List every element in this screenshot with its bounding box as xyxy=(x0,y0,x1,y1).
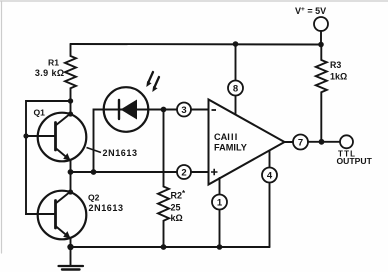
op-amp plus sign xyxy=(211,169,218,175)
light arrow 1 xyxy=(146,72,153,87)
node A junction dot xyxy=(68,169,74,175)
svg-text:Q2: Q2 xyxy=(88,193,100,203)
border frame top xyxy=(0,0,388,2)
light arrow 2 xyxy=(152,77,159,92)
node dot photodiode riser xyxy=(91,169,97,175)
resistor R1 xyxy=(65,44,76,101)
svg-text:8: 8 xyxy=(233,84,238,95)
photodiode D1 xyxy=(104,87,149,132)
svg-text:kΩ: kΩ xyxy=(171,213,183,223)
wire top rail V+ xyxy=(71,43,322,46)
wire Q2 collector up xyxy=(70,172,72,192)
node dot R2 bottom xyxy=(161,244,167,250)
svg-text:Q1: Q1 xyxy=(34,108,46,118)
pin 4 wire xyxy=(269,151,271,247)
TTL output terminal xyxy=(340,135,353,148)
border frame left xyxy=(1,1,3,253)
svg-text:1kΩ: 1kΩ xyxy=(330,72,347,82)
svg-text:4: 4 xyxy=(267,171,273,182)
wire R2 riser xyxy=(163,110,165,187)
svg-text:3.9 kΩ: 3.9 kΩ xyxy=(35,68,65,78)
ground junction dot xyxy=(67,244,73,250)
svg-text:7: 7 xyxy=(298,138,303,149)
pin 7 circle xyxy=(293,135,308,150)
output wire apex to 7 xyxy=(285,141,294,143)
wire Q2 emitter down xyxy=(70,239,72,248)
resistor R2 xyxy=(158,187,169,248)
terminal 3 xyxy=(177,103,191,117)
resistor R3 xyxy=(316,45,327,142)
node dot Q1 base xyxy=(23,133,28,138)
V+ terminal xyxy=(314,17,328,31)
svg-text:2N1613: 2N1613 xyxy=(103,148,138,158)
svg-text:CAIII: CAIII xyxy=(214,132,239,142)
ground xyxy=(59,247,84,270)
wire photodiode left riser xyxy=(94,110,105,173)
wire Q1 emitter down xyxy=(70,161,72,173)
label 2N1613 pointer xyxy=(87,148,102,153)
svg-text:V+ = 5V: V+ = 5V xyxy=(295,6,326,16)
svg-text:2N1613: 2N1613 xyxy=(89,203,124,213)
wire V+ stem xyxy=(320,31,322,45)
transistor Q2 xyxy=(26,191,86,240)
op-amp U1 CA111 xyxy=(209,100,285,185)
pin 4 circle xyxy=(262,168,277,183)
wire 7 to TTL output xyxy=(308,141,340,143)
svg-text:1: 1 xyxy=(217,198,223,209)
transistor Q1 xyxy=(26,113,86,162)
node dot Q2 collector xyxy=(68,189,73,194)
svg-text:OUTPUT: OUTPUT xyxy=(337,156,373,166)
pin 1 circle xyxy=(212,195,227,210)
node dot pin8 rail xyxy=(233,41,239,47)
wire terminal 3 to op-amp xyxy=(191,109,209,111)
wire photodiode to terminal 3 xyxy=(148,109,177,111)
pin 8 wire xyxy=(235,45,237,115)
wire R1 to Q1 collector xyxy=(70,101,72,114)
node dot V+ rail xyxy=(318,42,324,48)
node dot Q1 collector xyxy=(68,111,73,116)
svg-text:3: 3 xyxy=(181,105,186,116)
svg-text:25: 25 xyxy=(171,203,181,213)
wire bottom rail xyxy=(71,246,270,248)
node dot R1 bottom xyxy=(68,98,73,103)
pin 8 circle xyxy=(228,81,243,96)
node dot R3 bottom xyxy=(319,139,325,145)
svg-text:2: 2 xyxy=(181,168,186,179)
pin 1 wire xyxy=(219,178,221,247)
op-amp minus sign xyxy=(212,109,217,111)
node dot R2 riser top xyxy=(161,107,167,113)
wire branch collector-base xyxy=(26,101,71,214)
terminal 2 xyxy=(177,165,191,179)
svg-text:R3: R3 xyxy=(330,60,341,70)
svg-text:FAMILY: FAMILY xyxy=(214,143,247,153)
wire terminal 2 to op-amp xyxy=(191,171,209,173)
node dot pin1 rail xyxy=(217,244,223,250)
wire node A horizontal xyxy=(71,171,178,173)
svg-text:R1: R1 xyxy=(48,58,59,68)
